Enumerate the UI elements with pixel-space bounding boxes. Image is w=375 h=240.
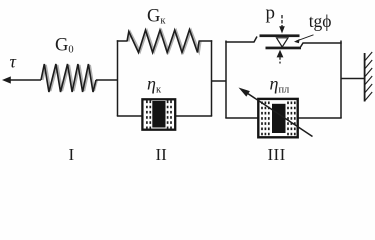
box III top-right stub wire (301, 43, 342, 47)
svg-text:II: II (156, 145, 168, 164)
dashpot II piston (152, 101, 165, 128)
tau arrow shaft (9, 79, 41, 81)
wire II to III (212, 80, 227, 82)
tg phi pointer arrowhead (294, 39, 300, 43)
box III top-left stub wire (225, 37, 257, 43)
box II right vertical (211, 40, 213, 116)
box III right vertical (340, 41, 342, 119)
p arrow shaft (281, 15, 283, 28)
lower press arrow shaft (279, 57, 281, 63)
wire spring G0 to box II (96, 79, 118, 81)
dashpot III piston (272, 104, 286, 133)
box III left vertical (225, 41, 227, 119)
tau arrowhead (2, 76, 11, 83)
dashpot II fluid dashes (147, 101, 171, 129)
wall hatching (365, 52, 373, 101)
box II top-left stub wire (117, 40, 127, 42)
spring G0 (41, 64, 96, 92)
svg-text:τ: τ (10, 52, 17, 72)
p arrowhead down (279, 26, 285, 33)
tg phi pointer line (296, 35, 314, 41)
spring Gk echo (129, 31, 201, 52)
box III bottom wire (225, 117, 341, 119)
wall line (364, 53, 366, 102)
svg-text:p: p (266, 3, 276, 24)
eta_pl diagonal arrowhead (239, 88, 250, 97)
friction element top plate (260, 34, 300, 37)
spring G0 echo (43, 65, 98, 91)
box II bottom wire (117, 115, 212, 117)
friction element triangle (277, 38, 289, 47)
dashpot III box (258, 99, 297, 137)
eta_pl diagonal arrow shaft (247, 93, 313, 137)
lower press arrowhead up (277, 50, 284, 58)
dashpot II box (142, 99, 175, 129)
box II left vertical (117, 40, 119, 116)
box II top-right stub wire (199, 40, 213, 42)
svg-text:tgϕ: tgϕ (309, 11, 332, 31)
dashpot III fluid dashes (262, 102, 295, 137)
friction element bottom plate (266, 47, 302, 50)
wire III to wall (341, 78, 365, 80)
svg-text:III: III (268, 145, 286, 164)
svg-text:I: I (69, 145, 75, 164)
spring Gk (127, 30, 199, 53)
